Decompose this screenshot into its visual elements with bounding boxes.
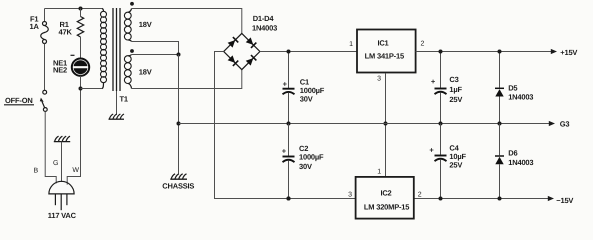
arrow -15V <box>548 196 554 201</box>
svg-text:1N4003: 1N4003 <box>508 158 533 167</box>
capacitor C1 <box>283 50 325 126</box>
wire center tap down to chassis <box>178 55 180 174</box>
svg-text:D5: D5 <box>508 84 517 93</box>
diode D6 <box>495 124 533 201</box>
arrow +15V <box>551 49 557 54</box>
svg-text:IC2: IC2 <box>380 189 391 198</box>
svg-text:W: W <box>72 167 79 174</box>
node pin3 G3 <box>384 122 388 126</box>
svg-text:CHASSIS: CHASSIS <box>162 181 194 190</box>
capacitor C2 <box>282 124 324 201</box>
resistor R1 <box>59 7 84 59</box>
svg-text:1A: 1A <box>30 22 40 31</box>
arrow G3 <box>549 121 555 126</box>
wire neon to plug W <box>67 76 82 185</box>
polarity dot bottom <box>130 49 134 53</box>
wire switch to plug B <box>45 112 56 184</box>
wire secondary bottom lead to bridge <box>132 70 242 89</box>
svg-text:3: 3 <box>377 76 381 83</box>
transformer T1 primary coil <box>101 9 107 89</box>
svg-text:+15V: +15V <box>560 48 577 57</box>
svg-text:NE2: NE2 <box>53 65 67 74</box>
wire top primary rail <box>45 8 103 10</box>
svg-text:2: 2 <box>421 41 425 48</box>
svg-text:1N4003: 1N4003 <box>508 93 533 102</box>
transformer secondary winding bottom 18V <box>124 55 131 89</box>
chassis ground symbol <box>162 174 194 191</box>
svg-text:47K: 47K <box>59 27 73 36</box>
svg-text:LM 320MP-15: LM 320MP-15 <box>364 203 409 212</box>
svg-text:1000µF: 1000µF <box>299 152 324 161</box>
svg-text:IC1: IC1 <box>377 38 388 47</box>
svg-text:G3: G3 <box>560 120 570 129</box>
wire IC1 pin3 to IC2 pin1 <box>385 73 387 177</box>
IC2 LM320MP-15 <box>348 168 422 218</box>
polarity dot top <box>130 2 134 6</box>
ground symbol above plug <box>54 136 70 141</box>
diode D5 <box>495 50 533 126</box>
capacitor C4 <box>429 124 466 201</box>
wire center tap lower <box>132 54 179 56</box>
svg-text:C3: C3 <box>449 75 458 84</box>
capacitor C3 <box>431 50 463 126</box>
svg-text:18V: 18V <box>139 67 152 76</box>
svg-text:OFF-ON: OFF-ON <box>5 96 33 105</box>
svg-text:G: G <box>53 160 58 167</box>
svg-text:30V: 30V <box>300 94 313 103</box>
svg-text:25V: 25V <box>449 95 462 104</box>
wire +15V rail <box>416 51 551 53</box>
svg-text:1N4003: 1N4003 <box>252 24 277 33</box>
svg-text:LM 341P-15: LM 341P-15 <box>365 52 404 61</box>
wire -15V rail <box>414 198 548 200</box>
wire G3 rail <box>179 123 549 125</box>
neon lamp NE1 NE2 <box>53 55 89 76</box>
svg-text:3: 3 <box>348 191 352 198</box>
svg-text:117 VAC: 117 VAC <box>48 211 77 220</box>
fuse F1 <box>30 9 49 91</box>
node G3 rail start <box>177 122 181 126</box>
svg-text:30V: 30V <box>299 162 312 171</box>
svg-text:D6: D6 <box>508 149 517 158</box>
svg-text:1: 1 <box>377 168 381 175</box>
svg-text:1µF: 1µF <box>449 85 462 94</box>
plug 117 VAC <box>48 181 77 220</box>
node center tap <box>177 53 181 57</box>
svg-text:−15V: −15V <box>556 196 573 205</box>
ground symbol core <box>109 114 125 119</box>
wire core ground stem <box>116 91 118 115</box>
switch OFF-ON S1 <box>4 90 47 111</box>
svg-text:18V: 18V <box>139 20 152 29</box>
bridge rectifier D1-D4 <box>224 14 277 69</box>
wire center tap upper <box>132 42 179 55</box>
svg-text:2: 2 <box>418 191 422 198</box>
wire primary bottom lead <box>81 88 103 90</box>
svg-text:D1-D4: D1-D4 <box>253 14 275 23</box>
svg-text:B: B <box>34 168 39 175</box>
node C2 bottom <box>287 197 291 201</box>
wire ground to plug G <box>61 142 63 182</box>
svg-text:T1: T1 <box>120 95 128 104</box>
wire bridge minus to lower rail <box>215 52 356 199</box>
IC1 LM341P-15 <box>349 30 424 83</box>
svg-text:25V: 25V <box>449 160 462 169</box>
transformer core <box>113 8 120 91</box>
wire bridge plus to IC1 <box>260 51 357 53</box>
wire secondary top lead to bridge <box>132 9 242 34</box>
svg-text:1: 1 <box>349 41 353 48</box>
transformer secondary winding top 18V <box>124 9 131 42</box>
